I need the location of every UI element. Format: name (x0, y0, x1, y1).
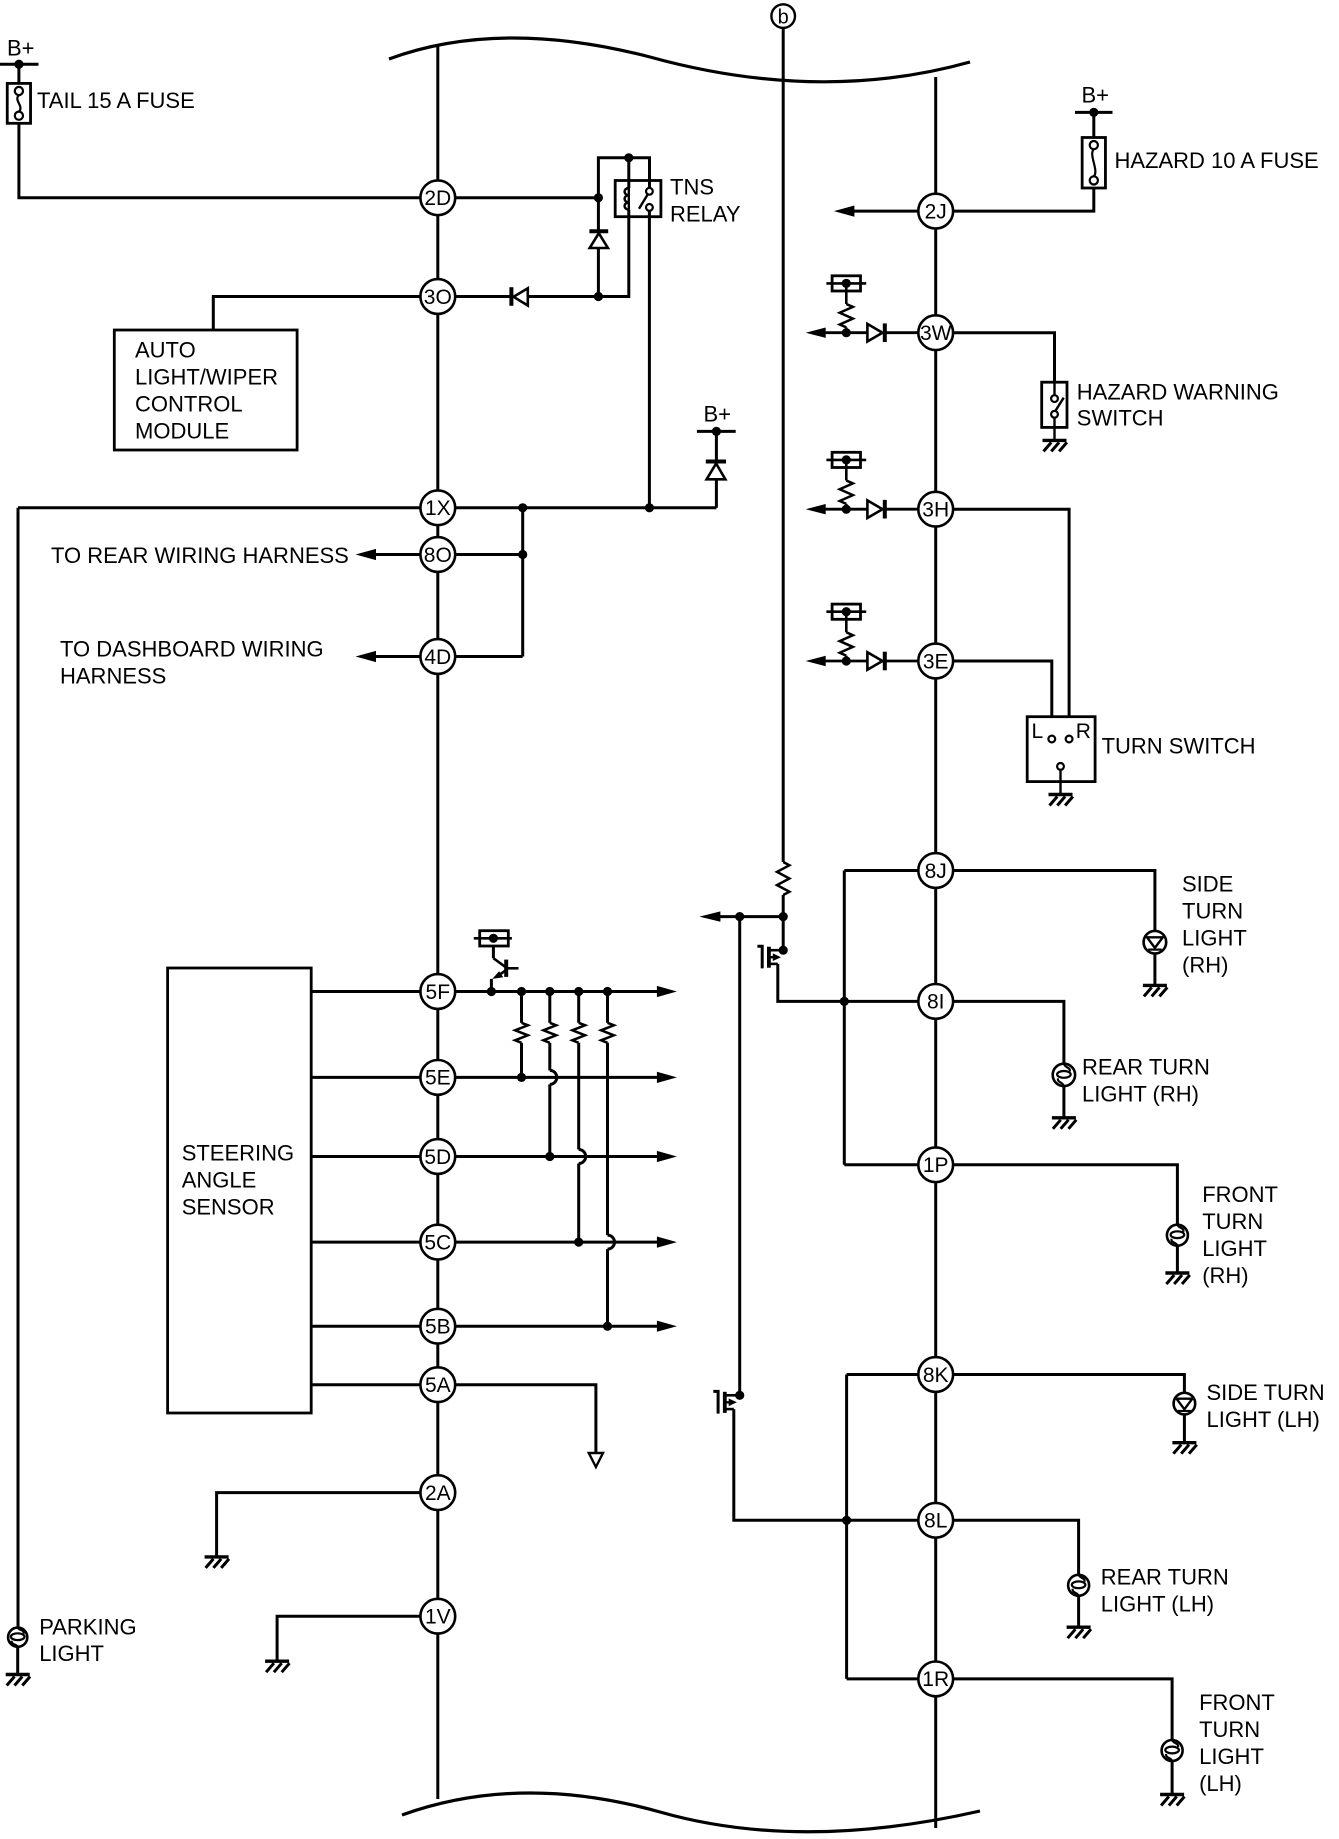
wire resistor to junction (3W) (845, 327, 848, 332)
wire diode D4 to 1X row (715, 479, 718, 508)
wire junction to diode (3H) (846, 508, 867, 511)
wire resistor to gate node (782, 895, 785, 917)
arrow to cluster (3E) (806, 656, 826, 666)
svg-text:5B: 5B (425, 1316, 451, 1339)
svg-text:FRONT: FRONT (1202, 1182, 1278, 1207)
junction 8O riser (518, 550, 527, 559)
svg-text:1V: 1V (425, 1606, 451, 1629)
ground (side turn LH) (1172, 1443, 1196, 1454)
ground (2A) (205, 1557, 229, 1568)
ground (front turn LH) (1160, 1795, 1184, 1806)
junction R3 top at 5F (574, 987, 583, 996)
svg-text:TURN: TURN (1182, 898, 1243, 923)
wire indicator to resistor (3E) (845, 612, 848, 633)
label B+ (TNS feed) (704, 402, 732, 427)
connector 5D (420, 1139, 455, 1174)
wire Q1 source to 8I row (778, 964, 919, 1002)
wire R1 to 5E (520, 1043, 523, 1078)
indicator element dot (3H) (842, 455, 851, 464)
label PARKING LIGHT (39, 1615, 136, 1666)
svg-text:8I: 8I (927, 991, 945, 1014)
svg-text:TURN SWITCH: TURN SWITCH (1102, 733, 1256, 758)
open arrow (5A signal ground) (589, 1453, 603, 1467)
label TAIL 15 A FUSE (37, 88, 195, 113)
svg-text:5C: 5C (424, 1231, 451, 1254)
lamp side turn light (LH) (1174, 1393, 1196, 1415)
svg-text:STEERING: STEERING (182, 1141, 294, 1166)
connector 5A (420, 1367, 455, 1402)
junction B+ hazard (1089, 108, 1098, 117)
label FRONT TURN LIGHT (LH) (1199, 1690, 1275, 1796)
svg-text:HAZARD WARNING: HAZARD WARNING (1077, 380, 1279, 405)
wire 5C row right (455, 1241, 658, 1244)
wire junction to diode (3E) (846, 660, 867, 663)
bulb parking light (8, 1628, 27, 1647)
wire b down to resistor (782, 28, 785, 862)
power rail B+ (hazard) (1075, 111, 1113, 114)
svg-text:5D: 5D (424, 1146, 451, 1169)
wire 1X row left (18, 506, 420, 509)
ground (front turn RH) (1165, 1273, 1189, 1284)
ground (turn switch) (1049, 795, 1073, 806)
wire diode to connector (3H) (885, 508, 919, 511)
indicator lead-through (3W) (826, 282, 866, 285)
wire 2J arrow shaft (852, 210, 918, 213)
resistor R4 (601, 1023, 614, 1043)
wire 2D to relay branch (455, 196, 598, 199)
resistor R5 (flasher line) (777, 862, 789, 895)
svg-text:B+: B+ (704, 402, 732, 427)
arrow 5F output (657, 986, 677, 997)
svg-text:3W: 3W (920, 322, 952, 345)
connector 8I (918, 984, 953, 1019)
svg-text:LIGHT: LIGHT (1182, 926, 1247, 951)
svg-text:LIGHT (LH): LIGHT (LH) (1207, 1407, 1320, 1432)
indicator lead-through (3E) (826, 610, 866, 613)
wire 3W to hazard switch (953, 333, 1055, 383)
wire 5F to R1 (520, 992, 523, 1023)
wire rear lamp LH to ground (1077, 1596, 1080, 1627)
wire transistor emitter to 5F (490, 979, 493, 992)
junction B+ tail (14, 60, 23, 69)
svg-text:b: b (778, 7, 789, 29)
wire 1V to ground (277, 1616, 420, 1661)
indicator element dot (5F driver) (489, 934, 498, 943)
junction at 3W branch (842, 328, 851, 337)
power rail B+ (tail) (0, 63, 39, 66)
connector 5F (420, 974, 455, 1009)
wire 8O row (455, 553, 523, 556)
wire 8K-1R riser (845, 1375, 848, 1679)
wire rear lamp RH to ground (1062, 1086, 1065, 1118)
diode D3 (3O series) (511, 287, 527, 306)
bulb front turn light (RH) (1167, 1225, 1188, 1246)
resistor (3W) (840, 304, 853, 327)
connector 5C (420, 1225, 455, 1260)
svg-text:LIGHT: LIGHT (1199, 1744, 1264, 1769)
connector 3E (918, 644, 953, 679)
label AUTO LIGHT/WIPER CONTROL MODULE (135, 338, 278, 444)
connector 8K (918, 1357, 953, 1392)
svg-text:PARKING: PARKING (39, 1615, 136, 1640)
bulb rear turn light (RH) (1053, 1064, 1075, 1086)
connector 8J (918, 853, 953, 888)
wire diode to connector (3W) (885, 331, 919, 334)
arrow 2J to flasher (834, 206, 855, 217)
resistor R3 (572, 1023, 585, 1043)
label TNS RELAY (670, 175, 741, 227)
wire indicator to resistor (3W) (845, 283, 848, 304)
junction 8J riser at 8I (840, 997, 849, 1006)
svg-text:5A: 5A (425, 1374, 451, 1397)
svg-text:MODULE: MODULE (135, 418, 229, 443)
connector 4D (420, 639, 455, 674)
wire sensor to 5A (311, 1383, 420, 1386)
arrow 5D output (657, 1151, 677, 1162)
ground (1V) (265, 1661, 289, 1672)
connector 1P (918, 1147, 953, 1182)
wire sensor to 5D (311, 1155, 420, 1158)
wire sensor to 5F (311, 990, 420, 993)
wire 1X row right (455, 506, 716, 509)
wire R3 upper (577, 1043, 580, 1150)
svg-text:SWITCH: SWITCH (1077, 405, 1164, 430)
wire diode to 3O row (597, 248, 600, 297)
wire junction to arrow (3H) (824, 508, 846, 511)
connector 3W (918, 315, 953, 350)
resistor R2 (543, 1023, 556, 1043)
wire 1R row left (847, 1677, 919, 1680)
wire sensor to 5B (311, 1325, 420, 1328)
wire front lamp LH to ground (1171, 1761, 1174, 1795)
wire junction to arrow (3W) (824, 331, 846, 334)
wire 5E row right (455, 1076, 658, 1079)
wire relay switch to 1X row (648, 211, 651, 508)
connector 5B (420, 1309, 455, 1344)
arrow 5C output (657, 1237, 677, 1248)
svg-text:4D: 4D (424, 646, 451, 669)
wire 4D row (455, 655, 523, 658)
hazard switch contacts (1051, 382, 1064, 440)
indicator box (3W) (832, 276, 860, 291)
label TO DASHBOARD WIRING HARNESS (60, 637, 324, 689)
connector 8L (918, 1503, 953, 1538)
svg-text:TNS: TNS (670, 175, 714, 200)
wire Q2 source to 8L row (734, 1409, 919, 1520)
connector 1X (420, 490, 455, 525)
wire diode D3 to coil branch (528, 295, 629, 298)
svg-text:2J: 2J (925, 200, 947, 223)
connector 3O (420, 279, 455, 314)
svg-text:TAIL 15 A FUSE: TAIL 15 A FUSE (37, 88, 195, 113)
svg-text:5F: 5F (426, 981, 451, 1004)
resistor R1 (515, 1023, 528, 1043)
wire 1R row right (953, 1679, 1172, 1740)
wire parking light to ground (16, 1647, 19, 1675)
arrow to cluster (3W) (806, 328, 826, 338)
label REAR TURN LIGHT (RH) (1082, 1054, 1210, 1106)
arrow 5B output (657, 1321, 677, 1332)
junction transistor at 5F (487, 987, 496, 996)
svg-text:1X: 1X (425, 497, 451, 520)
wire indicator to transistor (492, 946, 495, 958)
wire 5F row right (455, 990, 658, 993)
label TURN SWITCH (1102, 733, 1256, 758)
svg-text:ANGLE: ANGLE (182, 1168, 257, 1193)
svg-text:TURN: TURN (1199, 1717, 1260, 1742)
wire tail fuse to 2D (19, 123, 421, 198)
wire 5D row right (455, 1155, 658, 1158)
junction Q2 drain (735, 1391, 744, 1400)
junction R4 top at 5F (603, 987, 612, 996)
wire 8J row right (953, 871, 1155, 931)
junction R1 top at 5F (517, 987, 526, 996)
svg-text:TO REAR WIRING HARNESS: TO REAR WIRING HARNESS (51, 543, 349, 568)
junction relay switch at 1X (645, 503, 654, 512)
wire 3E to turn switch L (953, 661, 1052, 735)
svg-text:L: L (1032, 720, 1044, 743)
wire 1P row left (844, 1163, 918, 1166)
svg-text:LIGHT: LIGHT (39, 1641, 104, 1666)
ground (rear turn LH) (1067, 1627, 1091, 1638)
wire B+ to tail fuse (17, 64, 20, 83)
connector 8O (420, 537, 455, 572)
label REAR TURN LIGHT (LH) (1101, 1564, 1229, 1616)
svg-text:3O: 3O (424, 286, 452, 309)
bulb front turn light (LH) (1162, 1740, 1183, 1761)
svg-text:HAZARD 10 A FUSE: HAZARD 10 A FUSE (1115, 148, 1319, 173)
connector 2J (918, 194, 953, 229)
svg-text:LIGHT (RH): LIGHT (RH) (1082, 1081, 1199, 1106)
junction R1 bottom (517, 1073, 526, 1082)
label B+ (tail feed) (7, 36, 35, 61)
junction at 3H branch (842, 505, 851, 514)
box turn switch (1027, 717, 1095, 782)
label HAZARD WARNING SWITCH (1077, 380, 1279, 431)
svg-text:8O: 8O (424, 544, 452, 567)
wire resistor to junction (3E) (845, 656, 848, 661)
junction diode branch 3O (594, 292, 603, 301)
svg-text:REAR TURN: REAR TURN (1101, 1564, 1229, 1589)
transistor Q3 (5F driver) (492, 958, 518, 979)
svg-text:TURN: TURN (1202, 1209, 1263, 1234)
wire 5B row right (455, 1325, 658, 1328)
wire 3O to module (213, 297, 420, 331)
junction gate node (779, 912, 788, 921)
lamp side turn light (RH) (1144, 931, 1167, 954)
wire indicator to resistor (3H) (845, 460, 848, 481)
junction 8K riser at 8L (842, 1516, 851, 1525)
wire 3H to turn switch R (953, 509, 1069, 735)
svg-text:(LH): (LH) (1199, 1771, 1242, 1796)
resistor (3E) (840, 632, 853, 655)
wire junction to arrow (3E) (824, 660, 846, 663)
break line (top harness) (389, 38, 970, 82)
relay coil TNS (625, 188, 629, 210)
diode (3W) (867, 323, 884, 342)
svg-text:SIDE: SIDE (1182, 871, 1233, 896)
wire 5F to R4 (606, 992, 609, 1023)
indicator box (5F driver) (480, 931, 509, 946)
connector 1V (420, 1599, 455, 1634)
connector 5E (420, 1060, 455, 1095)
wire junction to diode (3W) (846, 331, 867, 334)
connector 1R (918, 1662, 953, 1697)
wire 2A to ground (217, 1493, 421, 1557)
wire side lamp LH to ground (1183, 1414, 1186, 1442)
arrow to rear wiring harness (356, 549, 377, 560)
svg-text:FRONT: FRONT (1199, 1690, 1275, 1715)
svg-text:RELAY: RELAY (670, 202, 741, 227)
svg-text:2D: 2D (424, 187, 451, 210)
diode (3E) (867, 652, 884, 671)
wire R3 lower (577, 1164, 580, 1243)
svg-text:HARNESS: HARNESS (60, 664, 166, 689)
wire front lamp RH to ground (1176, 1246, 1179, 1273)
diode D4 (B+ backfeed) (706, 462, 726, 480)
junction B+ TNS (712, 427, 721, 436)
svg-text:3E: 3E (923, 650, 949, 673)
wire hop R2 (550, 1070, 557, 1084)
relay switch contacts TNS (639, 188, 653, 211)
wire coil lead top (627, 158, 630, 188)
arrow 5E output (657, 1072, 677, 1083)
wire 8J-1P riser (843, 871, 846, 1165)
indicator element dot (3W) (842, 279, 851, 288)
wire B+ to hazard fuse (1092, 112, 1095, 137)
indicator box (3H) (832, 452, 860, 467)
wire R4 upper (606, 1043, 609, 1235)
power rail B+ (TNS) (697, 430, 736, 433)
wire R4 lower (606, 1249, 609, 1326)
wire 5F to R3 (577, 992, 580, 1023)
wire 8J row left (844, 869, 918, 872)
svg-text:8K: 8K (923, 1364, 949, 1387)
wire 3O to diode D3 (455, 295, 511, 298)
wire hazard fuse to 2J (953, 188, 1094, 211)
svg-text:R: R (1076, 720, 1091, 743)
label FRONT TURN LIGHT (RH) (1202, 1182, 1278, 1288)
junction Q1 drain (779, 946, 788, 955)
wire 1P row right (953, 1165, 1177, 1225)
wire 2D branch to diode (597, 198, 600, 231)
wire relay top link (598, 158, 649, 198)
indicator lead-through (3H) (826, 459, 866, 462)
svg-text:LIGHT (LH): LIGHT (LH) (1101, 1591, 1214, 1616)
wire side lamp RH to ground (1153, 954, 1156, 986)
junction R2 top at 5F (545, 987, 554, 996)
label SIDE TURN LIGHT (RH) (1182, 871, 1247, 977)
svg-text:8L: 8L (924, 1510, 947, 1533)
fuse HAZARD 10 A (1082, 138, 1105, 189)
wire 4D arrow shaft (374, 655, 420, 658)
svg-text:SIDE TURN: SIDE TURN (1207, 1380, 1325, 1405)
svg-text:(RH): (RH) (1182, 953, 1228, 978)
wire diode to connector (3E) (885, 660, 919, 663)
wire left edge down to parking light (17, 508, 20, 1628)
wire riser 1X-4D (521, 508, 524, 657)
relay box TNS (615, 181, 661, 217)
svg-text:1R: 1R (922, 1668, 949, 1691)
svg-text:LIGHT/WIPER: LIGHT/WIPER (135, 365, 278, 390)
turn switch contacts (1032, 720, 1091, 795)
wire hop R3 (579, 1150, 586, 1164)
wire 8O arrow shaft (374, 553, 420, 556)
label SIDE TURN LIGHT (LH) (1207, 1380, 1325, 1432)
wire 8I row right (953, 1001, 1064, 1063)
box steering angle sensor (168, 968, 312, 1413)
wire hop R4 (608, 1235, 615, 1249)
MOSFET Q2 (LH driver) (713, 1391, 739, 1413)
label TO REAR WIRING HARNESS (51, 543, 349, 568)
wire 8K row right (953, 1375, 1184, 1393)
fuse TAIL 15 A (7, 83, 30, 123)
svg-text:LIGHT: LIGHT (1202, 1236, 1267, 1261)
wire left harness bus (436, 47, 439, 1800)
svg-text:SENSOR: SENSOR (182, 1195, 275, 1220)
svg-text:TO DASHBOARD WIRING: TO DASHBOARD WIRING (60, 637, 324, 662)
diode D2 (relay flyback) (589, 231, 608, 248)
arrow to dashboard wiring harness (356, 651, 377, 662)
connector 2D (420, 180, 455, 215)
svg-text:1P: 1P (923, 1154, 949, 1177)
junction LH gate branch (735, 912, 744, 921)
resistor (3H) (840, 481, 853, 504)
svg-text:B+: B+ (7, 36, 35, 61)
wire 5A to output (455, 1385, 596, 1453)
ground (side turn RH) (1143, 985, 1167, 996)
arrow to cluster (3H) (806, 504, 826, 514)
junction relay coil top (624, 153, 633, 162)
bulb rear turn light (LH) (1068, 1575, 1089, 1596)
junction 2D branch (594, 193, 603, 202)
break line (bottom harness) (402, 1793, 980, 1832)
ground (rear turn RH) (1052, 1118, 1076, 1129)
wire 8L row right (953, 1520, 1079, 1575)
wire gate node to Q1 drain (782, 917, 785, 951)
indicator lead-through (5F driver) (474, 937, 512, 940)
box auto light/wiper control module (114, 330, 297, 450)
wire 8K row left (847, 1373, 919, 1376)
svg-text:B+: B+ (1082, 83, 1110, 108)
wire R2 lower (548, 1084, 551, 1156)
ground (parking light) (6, 1675, 30, 1686)
svg-text:2A: 2A (425, 1482, 451, 1505)
junction R4 bottom (603, 1322, 612, 1331)
svg-text:(RH): (RH) (1202, 1263, 1248, 1288)
junction R3 bottom (574, 1238, 583, 1247)
indicator element dot (3E) (842, 607, 851, 616)
svg-text:8J: 8J (925, 860, 947, 883)
svg-text:AUTO: AUTO (135, 338, 196, 363)
wire B+ to diode D4 (715, 431, 718, 461)
diode (3H) (867, 500, 884, 519)
wire resistor to junction (3H) (845, 504, 848, 509)
node b (flasher feed) (771, 4, 795, 28)
svg-text:5E: 5E (425, 1067, 451, 1090)
wire relay coil to 3O row (598, 210, 628, 297)
wire 5F to R2 (548, 992, 551, 1023)
box hazard warning switch (1042, 382, 1067, 427)
indicator box (3E) (832, 604, 860, 619)
ground (hazard switch) (1043, 440, 1067, 451)
wire right harness bus (934, 77, 937, 1828)
wire gate node arrow shaft (720, 915, 783, 918)
wire LH gate riser (738, 917, 741, 1396)
wire sensor to 5E (311, 1076, 420, 1079)
junction R2 bottom (545, 1152, 554, 1161)
label STEERING ANGLE SENSOR (182, 1141, 294, 1220)
